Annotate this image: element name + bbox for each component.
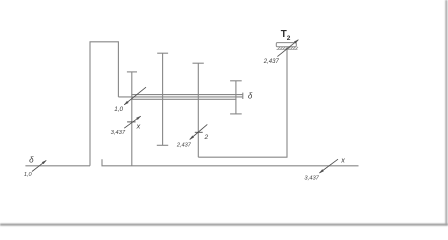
axis arrow x at base line right	[319, 159, 338, 173]
svg-text:δ: δ	[248, 92, 253, 101]
shaft II vertical (under T2 support)	[286, 48, 288, 157]
frame bottom line between gear 3 and shaft II	[198, 156, 287, 158]
axis arrow delta at base line left	[32, 160, 46, 171]
page right edge	[445, 0, 447, 225]
base line main segment with left tick	[102, 159, 359, 166]
svg-text:2,437: 2,437	[176, 143, 192, 149]
gear 2 top cap	[157, 52, 168, 54]
T2 fixed support bar	[276, 43, 296, 47]
gear 3 top cap	[193, 62, 204, 64]
dimension arrow x / 3,437 on gear 1 stem	[124, 116, 141, 128]
section tick on gear 1 stem	[127, 121, 136, 123]
gear 4 bottom cap	[230, 113, 242, 115]
svg-text:x: x	[340, 155, 345, 164]
T2 support hatch base line	[277, 48, 298, 50]
gear 3 stem (x=198.3, runs to frame bottom)	[197, 63, 199, 157]
svg-text:T2: T2	[281, 29, 291, 42]
shaft I middle line	[118, 96, 242, 98]
gear 4 top cap	[230, 80, 242, 82]
svg-text:1,0: 1,0	[24, 172, 33, 178]
section tick on gear 3 stem	[195, 131, 203, 133]
svg-text:2,437: 2,437	[263, 59, 280, 65]
left stepped wall outline	[90, 42, 118, 166]
shaft I right end cap	[242, 93, 244, 99]
shaft I upper line	[131, 94, 242, 96]
svg-text:2: 2	[204, 134, 209, 141]
dimension arrow 1,0 on shaft I	[124, 87, 146, 105]
gear 2 stem	[162, 53, 164, 145]
T2 support hatching	[278, 47, 299, 50]
svg-text:3,437: 3,437	[111, 130, 126, 136]
gear 1 top cap	[127, 71, 137, 73]
svg-text:δ: δ	[29, 155, 34, 164]
svg-text:3,437: 3,437	[304, 175, 319, 181]
base line left segment	[25, 165, 90, 167]
dimension arrow 2 / 2,437 on gear 3 stem	[190, 124, 208, 139]
shaft I lower line	[131, 98, 236, 100]
svg-text:1,0: 1,0	[114, 106, 123, 113]
svg-text:x: x	[136, 122, 141, 131]
page bottom edge	[0, 224, 448, 226]
gear 1 stem (x=131.8, runs to base line)	[131, 72, 133, 166]
gear 4 stem	[235, 81, 237, 114]
torque arrow at T2	[277, 40, 298, 57]
gear 2 bottom cap	[157, 144, 168, 146]
